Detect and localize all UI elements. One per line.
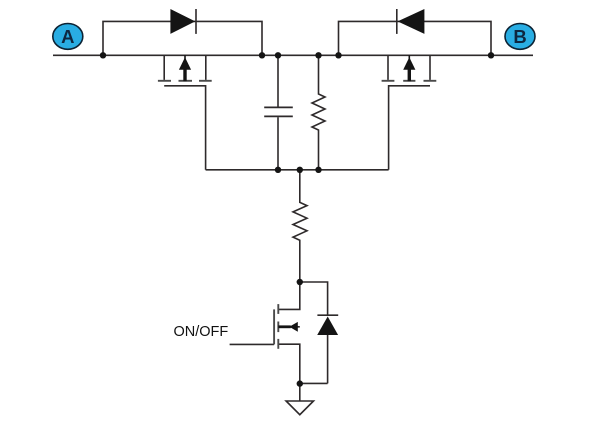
svg-text:A: A <box>61 26 74 47</box>
svg-text:B: B <box>513 26 526 47</box>
svg-text:ON/OFF: ON/OFF <box>174 324 229 340</box>
